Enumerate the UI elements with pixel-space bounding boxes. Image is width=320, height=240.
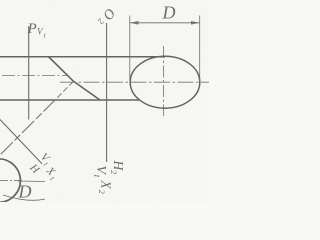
arrow right of dimension D xyxy=(191,21,200,25)
wire dimension line of D lower xyxy=(18,180,45,183)
wire top edge of plane figure xyxy=(0,56,165,58)
wire left vertical line under P_V1 xyxy=(28,26,30,120)
label V1 on X2 axis xyxy=(92,166,109,178)
wire connection line L1 hidden part (dashed) xyxy=(56,81,74,99)
label V1 on X1 axis xyxy=(37,151,54,168)
wire dimension line D xyxy=(130,22,200,24)
wire X2 axis vertical xyxy=(106,23,108,162)
label H on X1 axis xyxy=(27,161,43,177)
wire extension line right xyxy=(199,16,201,83)
wire vertical dash-dot centre line of ellipse xyxy=(163,46,165,116)
label P_V1 xyxy=(27,21,47,39)
wire dash-dot centre line left part xyxy=(2,75,68,77)
label X1 on X1 axis xyxy=(42,164,60,182)
wire slanted edge F xyxy=(49,57,100,100)
label O2 rotated xyxy=(95,5,118,29)
ellipse projection of circle xyxy=(130,56,200,108)
wire dash-dot centre line of circle xyxy=(0,180,22,182)
wire dash-dot centre line through ellipse xyxy=(60,81,209,83)
wire X1 axis xyxy=(0,120,42,164)
arrow left of dimension D xyxy=(130,21,139,25)
wire leader curve under D xyxy=(3,195,45,200)
label H2 on X2 axis xyxy=(109,160,126,175)
wire connection line L1 solid part xyxy=(0,100,56,156)
label X2 on X2 axis xyxy=(97,180,114,194)
circle true-size view (clipped) xyxy=(0,159,20,203)
wire extension line left xyxy=(129,16,131,83)
wire bottom edge of plane figure xyxy=(0,99,140,101)
